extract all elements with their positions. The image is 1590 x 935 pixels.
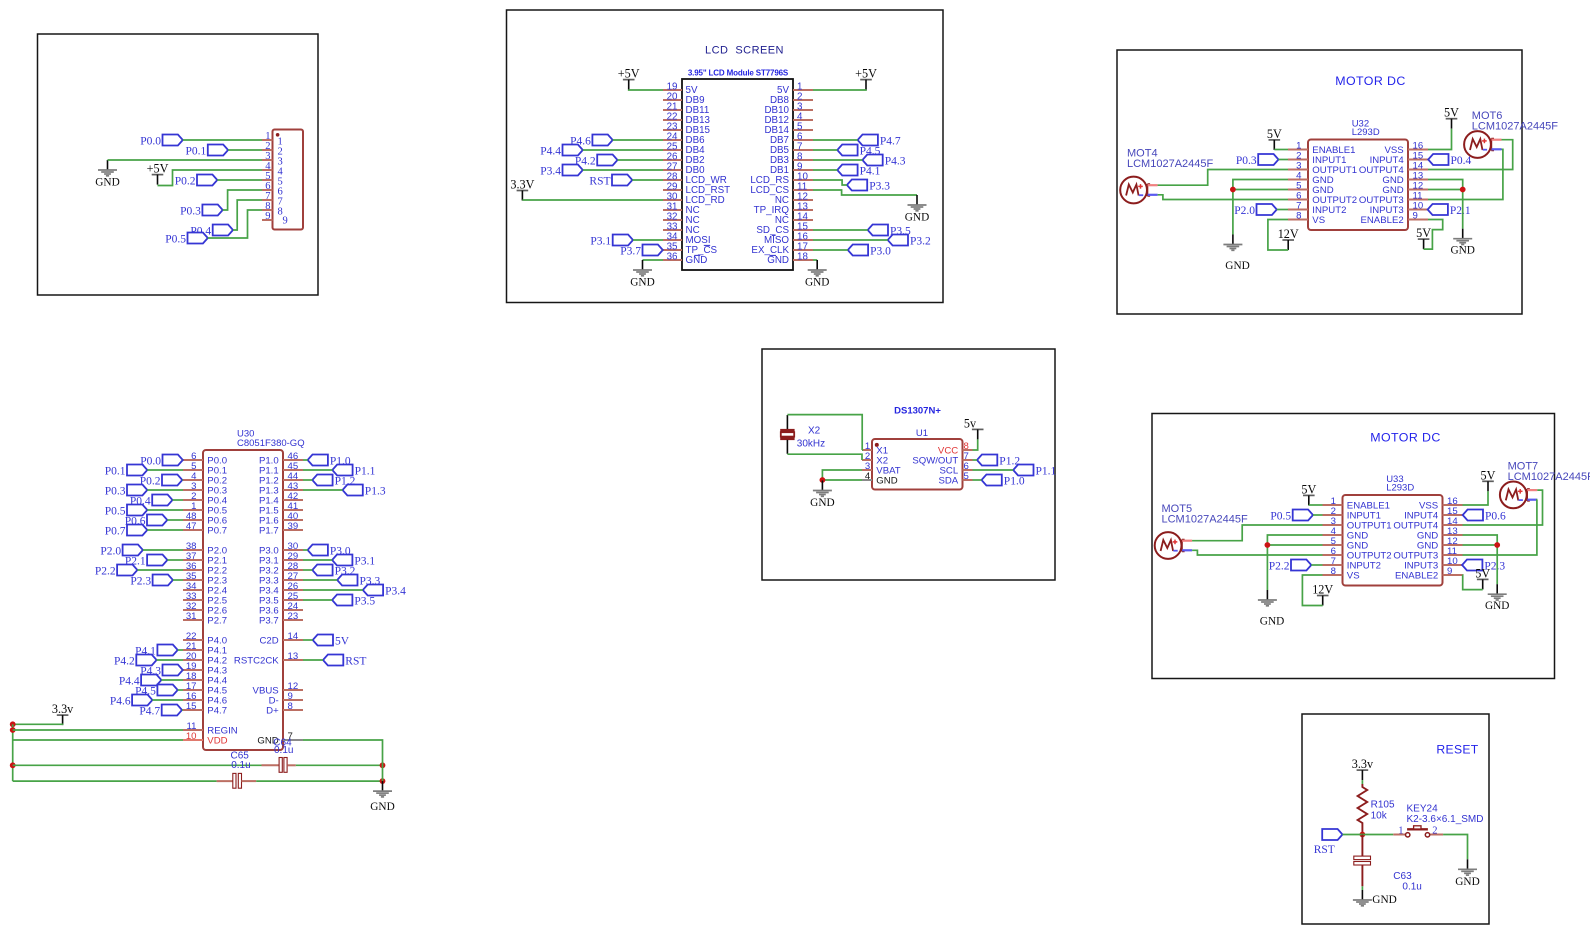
wire P2.2 to U30	[137, 569, 183, 571]
pin 19 P4.3 (left)	[183, 669, 203, 671]
LCD pin 8 DB3 (right)	[793, 159, 813, 161]
svg-text:LCM1027A2445F: LCM1027A2445F	[1127, 158, 1214, 170]
junction (right cap rail)	[380, 762, 386, 768]
pin 3 OUTPUT1 (left)	[1288, 169, 1308, 171]
LCD pin 5 DB14 (right)	[793, 129, 813, 131]
pin 9 ENABLE2 (right)	[1443, 574, 1463, 576]
wire MISO to P3.2	[813, 239, 888, 241]
LCD pin 21 DB11 (left)	[663, 109, 682, 111]
port flag P0.4	[1428, 154, 1448, 165]
pin 21 P4.1 (left)	[183, 649, 203, 651]
wire P4.3 to U30	[182, 669, 184, 671]
wire 5v to VCC	[973, 439, 978, 450]
pin 17 P4.5 (left)	[183, 689, 203, 691]
port flag P0.3 (U30)	[127, 485, 147, 496]
svg-text:GND: GND	[686, 255, 708, 266]
pin 41 P1.5 (right)	[283, 509, 303, 511]
svg-text:12V: 12V	[1312, 583, 1333, 597]
svg-text:3.3v: 3.3v	[1352, 757, 1374, 771]
svg-text:0.1u: 0.1u	[274, 745, 293, 756]
pin 18 P4.4 (left)	[183, 679, 203, 681]
port flag P0.4 (U30)	[152, 495, 172, 506]
svg-text:X2: X2	[808, 425, 821, 436]
ground GND (U30)	[382, 781, 384, 791]
junction (RST node)	[1360, 832, 1366, 838]
pin 4 P0.2 (left)	[183, 479, 203, 481]
ground GND (DS1307)	[821, 481, 823, 491]
svg-text:L293D: L293D	[1386, 483, 1414, 494]
wire U30 to P1.0	[303, 459, 308, 461]
junction (GND pins, right)	[1494, 542, 1500, 548]
svg-text:P0.5: P0.5	[165, 233, 186, 245]
pin 5 P0.1 (left)	[183, 469, 203, 471]
pin 8 VS (left)	[1323, 574, 1343, 576]
svg-text:P4.4: P4.4	[540, 145, 561, 157]
pin 9 ENABLE2 (right)	[1408, 219, 1428, 221]
pin 12 GND (right)	[1443, 544, 1463, 546]
wire GND pin4 down	[1233, 180, 1288, 235]
svg-text:P4.2: P4.2	[114, 655, 135, 667]
pin 9 D- (right)	[283, 699, 303, 701]
svg-text:9: 9	[1413, 211, 1418, 222]
wire ENABLE2 to 5V	[1463, 575, 1483, 590]
wire EX_CLK to P3.0	[813, 249, 848, 251]
port flag P3.3 (U30 right)	[337, 575, 357, 586]
port flag P2.3 (U30)	[153, 575, 173, 586]
svg-text:47: 47	[186, 521, 197, 532]
wire RST to LCD_WR	[632, 179, 663, 181]
pin 10 INPUT3 (right)	[1443, 564, 1463, 566]
svg-text:5V: 5V	[335, 635, 350, 647]
power 3.3v (RESET)	[1357, 769, 1369, 771]
wire 5V to ENABLE1	[1274, 149, 1288, 151]
wire LCD_RS to P3.3	[813, 180, 847, 185]
LCD pin 35 TP_CS (left)	[663, 249, 682, 251]
connector J1 body	[273, 130, 304, 230]
wire U30 to P3.1	[303, 559, 332, 561]
svg-text:P3.3: P3.3	[869, 180, 890, 192]
port flag P0.2	[197, 175, 217, 186]
svg-text:RESET: RESET	[1436, 743, 1478, 757]
pin 8 VCC (right)	[963, 449, 973, 451]
wire P4.1 to U30	[178, 649, 183, 651]
pin 2 P0.4 (left)	[183, 499, 203, 501]
ground GND (connector)	[107, 160, 109, 170]
port flag P4.4 (U30)	[141, 675, 161, 686]
port flag P0.5	[188, 233, 208, 244]
wire U30 to P3.3	[303, 579, 337, 581]
junction (REGIN tap)	[10, 727, 16, 733]
port flag P3.1 (U30 right)	[332, 555, 352, 566]
port flag P0.4	[213, 225, 233, 236]
ground GND (LCD right middle)	[916, 195, 918, 205]
port flag P3.5 (LCD)	[868, 225, 888, 236]
port flag P2.2 (U30)	[117, 565, 137, 576]
wire MOT7 + to OUTPUT4	[1463, 490, 1543, 525]
svg-text:8: 8	[1296, 211, 1301, 222]
connector pin 6	[262, 189, 273, 191]
port flag P0.5 (U30)	[127, 505, 147, 516]
pin 7 GND (right)	[283, 739, 303, 741]
wire X2 bottom to X2 pin	[787, 454, 862, 460]
svg-text:RSTC2CK: RSTC2CK	[234, 655, 279, 666]
wire MOT5 + to OUTPUT1	[1192, 525, 1322, 541]
pin 2 INPUT1 (left)	[1288, 159, 1308, 161]
wire P0.0 to U30	[182, 459, 184, 461]
wire MOT6 + to OUTPUT4	[1428, 140, 1513, 170]
pin 1 X1 (left)	[862, 449, 872, 451]
svg-text:GND: GND	[630, 277, 654, 289]
svg-text:GND: GND	[905, 212, 929, 224]
svg-text:5V: 5V	[1475, 566, 1490, 580]
wire DB3 to P4.3	[813, 159, 862, 161]
wire DB7 to P4.7	[813, 139, 858, 141]
frame: DS1307 block	[762, 349, 1055, 580]
port flag P3.0 (LCD)	[848, 245, 868, 256]
wire 5V to ENABLE1	[1309, 504, 1323, 506]
port flag P4.7	[858, 135, 878, 146]
wire P3.1 to MOSI	[633, 239, 663, 241]
wire SD_CS to P3.5	[813, 229, 868, 231]
pin 31 P2.7 (left)	[183, 619, 203, 621]
power 5V (left, U32)	[1269, 139, 1281, 141]
LCD module body	[682, 79, 793, 270]
svg-text:D+: D+	[266, 705, 279, 716]
wire P4.4 to U30	[161, 679, 183, 681]
wire GND pin13 down	[1463, 535, 1498, 584]
wire SQW/OUT to P1.2	[973, 459, 978, 461]
svg-text:30kHz: 30kHz	[797, 438, 825, 449]
pin 3 VBAT (left)	[862, 469, 872, 471]
power 12V (U33)	[1317, 595, 1329, 597]
pin 6 SCL (right)	[963, 469, 973, 471]
pin 13 GND (right)	[1443, 534, 1463, 536]
port flag P2.1	[1428, 204, 1448, 215]
svg-text:+5V: +5V	[855, 67, 877, 81]
svg-text:L293D: L293D	[1352, 127, 1380, 138]
port flag P4.2 (U30)	[136, 655, 156, 666]
wire GND pin5 join	[1267, 544, 1322, 546]
svg-text:P4.7: P4.7	[880, 135, 901, 147]
svg-text:8: 8	[1331, 566, 1336, 577]
pin 6 P0.0 (left)	[183, 459, 203, 461]
wire U30 to P3.2	[303, 569, 312, 571]
pin 20 P4.2 (left)	[183, 659, 203, 661]
junction (GND pins, right)	[1460, 187, 1466, 193]
pin 11 REGIN (left)	[183, 729, 203, 731]
LCD pin 18 GND (right)	[793, 259, 813, 261]
power +5V (LCD left)	[623, 79, 635, 81]
svg-text:5V: 5V	[1481, 468, 1496, 482]
svg-text:P1.7: P1.7	[259, 525, 279, 536]
pin 26 P3.4 (right)	[283, 589, 303, 591]
wire VBAT to ground	[822, 470, 862, 480]
pin 8 D+ (right)	[283, 709, 303, 711]
junction (VBAT/GND)	[820, 477, 826, 483]
svg-text:5V: 5V	[1267, 127, 1282, 141]
LCD pin 26 DB2 (left)	[663, 159, 682, 161]
LCD pin 36 GND (left)	[663, 259, 682, 261]
wire U30 to P3.5	[303, 599, 332, 601]
port flag P1.1 (U30 right)	[332, 465, 352, 476]
port flag P4.4	[563, 145, 583, 156]
svg-text:3.95" LCD Module ST7796S: 3.95" LCD Module ST7796S	[688, 68, 789, 77]
LCD pin 27 DB0 (left)	[663, 169, 682, 171]
svg-text:P0.0: P0.0	[140, 135, 161, 147]
wire GND pin5 join	[1233, 189, 1288, 191]
port flag P1.0 (U30 right)	[308, 455, 328, 466]
svg-text:GND: GND	[95, 177, 119, 189]
pin 14 C2D (right)	[283, 639, 303, 641]
LCD pin 13 TP_IRQ (right)	[793, 209, 813, 211]
port flag P3.4	[563, 165, 583, 176]
wire P0.3 to pin6	[223, 190, 262, 210]
pin 5 SDA (right)	[963, 479, 973, 481]
svg-text:P0.1: P0.1	[105, 465, 126, 477]
svg-text:P0.3: P0.3	[105, 485, 126, 497]
wire P4.4 to DB4	[583, 149, 663, 151]
wire C63 to GND	[1361, 886, 1363, 890]
pin 5 GND (left)	[1323, 544, 1343, 546]
pin 36 P2.2 (left)	[183, 569, 203, 571]
svg-text:39: 39	[288, 521, 299, 532]
wire P0.0 to pin1	[183, 139, 262, 141]
port flag P4.1	[837, 165, 857, 176]
pin 34 P2.4 (left)	[183, 589, 203, 591]
pin 4 GND (left)	[1288, 179, 1308, 181]
wire P0.6 to U30	[167, 519, 183, 521]
port flag RST (LCD)	[612, 175, 632, 186]
connector pin 1	[262, 139, 273, 141]
svg-text:23: 23	[288, 611, 299, 622]
wire MOT4 + to OUTPUT1	[1158, 170, 1288, 186]
svg-text:9: 9	[283, 215, 288, 226]
port flag P1.0	[982, 475, 1002, 486]
port flag P3.3 (LCD)	[847, 180, 867, 191]
port flag P0.6	[1463, 510, 1483, 521]
wire P0.4 to U30	[173, 499, 184, 501]
LCD pin 12 NC (right)	[793, 199, 813, 201]
wire MOT6 - to OUTPUT3	[1428, 149, 1503, 199]
svg-text:5V: 5V	[1444, 106, 1459, 120]
svg-text:+5V: +5V	[147, 162, 169, 176]
junction (left cap rail)	[10, 762, 16, 768]
svg-text:P3.1: P3.1	[590, 235, 611, 247]
pin 11 OUTPUT3 (right)	[1408, 199, 1428, 201]
svg-text:5: 5	[964, 471, 969, 482]
pin 40 P1.6 (right)	[283, 519, 303, 521]
wire U30 GND pin7 to gnd rail	[303, 740, 383, 781]
svg-text:36: 36	[667, 251, 678, 262]
svg-text:P0.3: P0.3	[1236, 155, 1257, 167]
wire SDA to P1.0	[973, 479, 982, 481]
port flag RST (U30 right)	[323, 655, 343, 666]
svg-text:GND: GND	[370, 801, 394, 813]
svg-text:P2.0: P2.0	[1234, 205, 1255, 217]
pin 6 OUTPUT2 (left)	[1323, 554, 1343, 556]
capacitor C64 0.1u	[262, 764, 279, 766]
svg-text:MOTOR DC: MOTOR DC	[1370, 431, 1440, 445]
pin 6 OUTPUT2 (left)	[1288, 199, 1308, 201]
wire P0.3 to U30	[147, 489, 183, 491]
power 5v (DS1307)	[972, 428, 984, 430]
connector pin 3	[262, 159, 273, 161]
svg-text:P4.7: P4.7	[207, 705, 227, 716]
pin 25 P3.5 (right)	[283, 599, 303, 601]
wire LCD pin18 GND down	[813, 259, 817, 261]
LCD pin 23 DB15 (left)	[663, 129, 682, 131]
port flag 5V (U30 right)	[313, 635, 333, 646]
svg-text:GND: GND	[767, 255, 789, 266]
port flag P0.3	[1258, 154, 1278, 165]
svg-text:P0.1: P0.1	[186, 145, 207, 157]
svg-text:P4.3: P4.3	[885, 155, 906, 167]
wire 12V to VS	[1302, 575, 1322, 606]
wire GND pin12 join	[1463, 544, 1498, 546]
wire P4.2 to U30	[157, 659, 183, 661]
svg-text:P3.4: P3.4	[540, 165, 561, 177]
svg-text:DS1307N+: DS1307N+	[894, 406, 941, 417]
svg-text:P1.3: P1.3	[365, 485, 386, 497]
port flag P0.6 (U30)	[147, 515, 167, 526]
LCD pin 14 NC (right)	[793, 219, 813, 221]
ground GND (LCD left)	[642, 260, 644, 270]
wire P0.3 to INPUT1	[1279, 159, 1289, 161]
pin 13 RSTC2CK (right)	[283, 659, 303, 661]
svg-text:0.1u: 0.1u	[231, 760, 250, 771]
port flag P1.3 (U30 right)	[343, 485, 363, 496]
port flag P4.3	[862, 155, 882, 166]
svg-text:VDD: VDD	[207, 735, 227, 746]
pin 15 INPUT4 (right)	[1443, 514, 1463, 516]
wire P0.7 to U30	[147, 529, 183, 531]
motor MOT5 LCM1027A2445F	[1155, 532, 1182, 559]
frame: RESET block	[1302, 714, 1489, 924]
connector pin 8	[262, 209, 273, 211]
svg-text:GND: GND	[1455, 876, 1479, 888]
port flag P2.0 (U30)	[123, 545, 143, 556]
svg-text:P3.5: P3.5	[354, 595, 375, 607]
port flag P0.3	[202, 205, 222, 216]
LCD pin 24 DB6 (left)	[663, 139, 682, 141]
svg-text:31: 31	[186, 611, 197, 622]
svg-text:3.3V: 3.3V	[510, 178, 534, 192]
svg-text:P4.6: P4.6	[110, 695, 131, 707]
wire MOT5 - to OUTPUT2	[1192, 550, 1322, 555]
motor MOT6 LCM1027A2445F	[1464, 131, 1491, 158]
pin 15 P4.7 (left)	[183, 709, 203, 711]
port flag P4.5 (U30)	[157, 685, 177, 696]
wire P4.7 to U30	[182, 709, 183, 711]
power 5V (top right, U33)	[1482, 480, 1494, 482]
pin 39 P1.7 (right)	[283, 529, 303, 531]
svg-text:9: 9	[1447, 566, 1452, 577]
svg-text:C8051F380-GQ: C8051F380-GQ	[237, 438, 305, 449]
wire 5V to VSS	[1428, 129, 1452, 150]
pin 29 P3.1 (right)	[283, 559, 303, 561]
connector pin 2	[262, 149, 273, 151]
wire +5V to LCD pin1	[813, 89, 866, 91]
port flag P3.2 (LCD)	[888, 235, 908, 246]
svg-text:GND: GND	[1225, 260, 1249, 272]
svg-text:13: 13	[288, 651, 299, 662]
port flag P3.7 (LCD)	[643, 245, 663, 256]
pin 1 ENABLE1 (left)	[1288, 149, 1308, 151]
svg-text:VS: VS	[1312, 215, 1325, 226]
svg-text:MOTOR DC: MOTOR DC	[1335, 74, 1405, 88]
LCD pin 4 DB12 (right)	[793, 119, 813, 121]
wire SCL to P1.1	[973, 469, 1014, 471]
pin 47 P0.7 (left)	[183, 529, 203, 531]
svg-text:GND: GND	[1260, 615, 1284, 627]
pin 2 INPUT1 (left)	[1323, 514, 1343, 516]
svg-text:10k: 10k	[1371, 810, 1388, 821]
port flag P0.1 (U30)	[127, 465, 147, 476]
wire P4.2 to DB2	[618, 159, 664, 161]
U1 pin-1 orientation dot	[875, 443, 879, 447]
port flag RST (RESET)	[1322, 829, 1342, 840]
wire GND pin13 down	[1428, 180, 1463, 229]
ground GND (right, U33)	[1496, 584, 1498, 594]
svg-text:P2.1: P2.1	[1450, 205, 1471, 217]
svg-text:12V: 12V	[1278, 227, 1299, 241]
svg-text:P3.0: P3.0	[870, 245, 891, 257]
svg-text:1: 1	[1398, 825, 1403, 836]
port flag P4.2	[597, 155, 617, 166]
wire +5V to LCD pin19	[629, 89, 663, 91]
svg-text:P0.5: P0.5	[105, 505, 126, 517]
port flag P0.2 (U30)	[162, 475, 182, 486]
frame: MOTOR DC block (top)	[1117, 50, 1522, 314]
wire LCD pin36 GND down	[643, 259, 664, 261]
wire cap rail upper (left part)	[13, 764, 262, 766]
ground GND (LCD right bottom)	[816, 260, 818, 270]
wire REGIN rail	[13, 729, 183, 731]
LCD pin 6 DB7 (right)	[793, 139, 813, 141]
LCD pin 20 DB9 (left)	[663, 99, 682, 101]
power +5V (connector)	[152, 174, 164, 176]
svg-text:5v: 5v	[964, 416, 977, 430]
svg-text:SDA: SDA	[938, 475, 958, 486]
wire cap rail lower (left part)	[13, 780, 217, 782]
pin 7 INPUT2 (left)	[1323, 564, 1343, 566]
svg-text:GND: GND	[805, 277, 829, 289]
power +5V (LCD right)	[860, 79, 872, 81]
LCD pin 29 LCD_RST (left)	[663, 189, 682, 191]
wire U30 to 5V	[303, 639, 313, 641]
wire P0.5 to INPUT1	[1313, 514, 1323, 516]
svg-text:3.3v: 3.3v	[52, 702, 74, 716]
wire X2 top to X1	[787, 415, 862, 450]
port flag P3.0 (U30 right)	[308, 545, 328, 556]
pin 12 GND (right)	[1408, 189, 1428, 191]
ground GND (left, U33)	[1266, 590, 1268, 600]
pin 15 INPUT4 (right)	[1408, 159, 1428, 161]
port flag P2.2	[1291, 560, 1311, 571]
power 3.3v (U30)	[57, 714, 69, 716]
wire DB1 to P4.1	[813, 169, 837, 171]
pin 10 INPUT3 (right)	[1408, 209, 1428, 211]
svg-text:5V: 5V	[1301, 482, 1316, 496]
svg-text:R105: R105	[1371, 799, 1395, 810]
svg-text:P2.7: P2.7	[207, 615, 227, 626]
svg-text:RST: RST	[345, 655, 366, 667]
wire LCD_CS to GND	[813, 190, 917, 195]
svg-text:P3.2: P3.2	[910, 235, 931, 247]
svg-text:GND: GND	[876, 475, 897, 486]
junction (GND pins, left)	[1265, 542, 1271, 548]
svg-text:C2D: C2D	[259, 635, 278, 646]
